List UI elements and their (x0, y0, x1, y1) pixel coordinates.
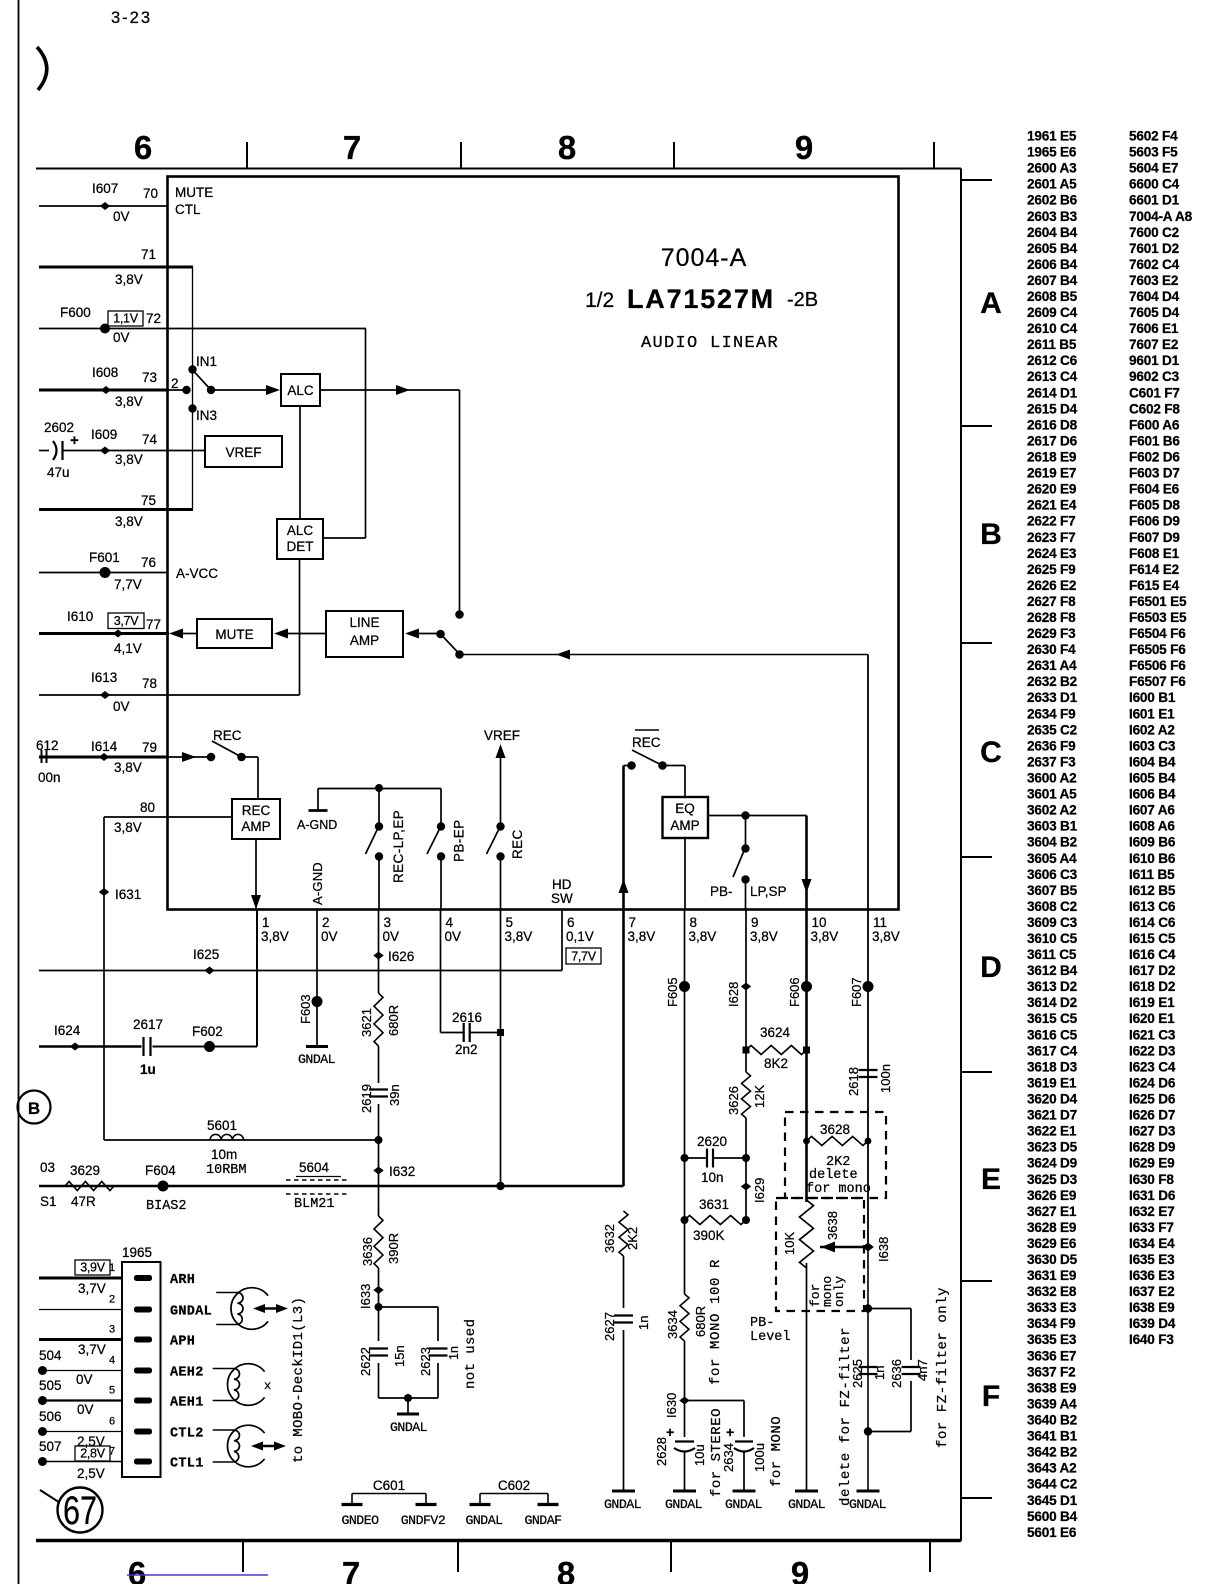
svg-text:ARH: ARH (170, 1273, 195, 1288)
svg-text:3612 B4: 3612 B4 (1027, 963, 1078, 978)
svg-text:I619 E1: I619 E1 (1129, 995, 1175, 1010)
svg-text:x: x (264, 1379, 271, 1393)
svg-text:I625 D6: I625 D6 (1129, 1092, 1176, 1107)
svg-text:2600 A3: 2600 A3 (1027, 161, 1077, 176)
svg-text:I630: I630 (664, 1393, 679, 1418)
svg-text:74: 74 (142, 432, 158, 447)
svg-text:I603 C3: I603 C3 (1129, 738, 1176, 753)
svg-text:39n: 39n (387, 1084, 402, 1106)
svg-text:3622 E1: 3622 E1 (1027, 1124, 1077, 1139)
svg-text:6600 C4: 6600 C4 (1129, 177, 1180, 192)
svg-text:3641 B1: 3641 B1 (1027, 1429, 1078, 1444)
svg-text:3,8V: 3,8V (750, 929, 778, 944)
svg-text:2616 D8: 2616 D8 (1027, 417, 1078, 432)
svg-text:1: 1 (262, 915, 270, 930)
svg-text:C: C (980, 736, 1002, 769)
svg-text:2620 E9: 2620 E9 (1027, 482, 1077, 497)
svg-text:F6507 F6: F6507 F6 (1129, 674, 1186, 689)
svg-text:F607 D9: F607 D9 (1129, 530, 1180, 545)
svg-text:7606 E1: 7606 E1 (1129, 321, 1179, 336)
svg-text:2626 E2: 2626 E2 (1027, 578, 1077, 593)
svg-text:I623 C4: I623 C4 (1129, 1059, 1176, 1074)
svg-text:3626 E9: 3626 E9 (1027, 1188, 1077, 1203)
svg-text:3642 B2: 3642 B2 (1027, 1445, 1078, 1460)
svg-text:3621: 3621 (359, 1008, 374, 1037)
svg-text:100n: 100n (878, 1064, 893, 1093)
svg-text:1u: 1u (140, 1062, 156, 1077)
svg-text:3639 A4: 3639 A4 (1027, 1397, 1077, 1412)
svg-text:I626 D7: I626 D7 (1129, 1108, 1175, 1123)
svg-text:F606 D9: F606 D9 (1129, 514, 1180, 529)
svg-text:3,8V: 3,8V (115, 514, 143, 529)
svg-text:I624: I624 (54, 1023, 81, 1038)
svg-text:2603 B3: 2603 B3 (1027, 209, 1078, 224)
svg-text:I632: I632 (389, 1164, 415, 1179)
svg-text:3632 E8: 3632 E8 (1027, 1284, 1077, 1299)
svg-text:I624 D6: I624 D6 (1129, 1076, 1176, 1091)
svg-text:for MONO 100 R: for MONO 100 R (708, 1259, 724, 1385)
svg-text:0V: 0V (77, 1402, 94, 1417)
svg-text:GNDAL: GNDAL (298, 1052, 336, 1067)
svg-text:100u: 100u (752, 1443, 767, 1472)
svg-text:2633 D1: 2633 D1 (1027, 690, 1078, 705)
svg-text:73: 73 (142, 370, 157, 385)
svg-text:GNDFV2: GNDFV2 (401, 1513, 445, 1528)
svg-text:I613 C6: I613 C6 (1129, 899, 1176, 914)
svg-text:F603: F603 (298, 994, 313, 1024)
svg-text:3617 C4: 3617 C4 (1027, 1043, 1078, 1058)
svg-text:Level: Level (750, 1330, 791, 1345)
svg-text:I628: I628 (726, 982, 741, 1007)
svg-text:IN1: IN1 (196, 354, 217, 369)
svg-text:2630 F4: 2630 F4 (1027, 642, 1076, 657)
svg-text:C601 F7: C601 F7 (1129, 385, 1180, 400)
svg-text:6: 6 (109, 1416, 115, 1428)
svg-text:F607: F607 (849, 977, 864, 1007)
svg-text:I621 C3: I621 C3 (1129, 1027, 1176, 1042)
svg-text:6: 6 (128, 1555, 146, 1584)
svg-text:I607 A6: I607 A6 (1129, 803, 1175, 818)
svg-text:I620 E1: I620 E1 (1129, 1011, 1175, 1026)
svg-text:AMP: AMP (350, 633, 379, 648)
svg-text:2K2: 2K2 (625, 1227, 640, 1250)
svg-text:3638 E9: 3638 E9 (1027, 1380, 1077, 1395)
svg-text:F606: F606 (787, 977, 802, 1007)
svg-text:3601 A5: 3601 A5 (1027, 787, 1077, 802)
svg-text:0V: 0V (383, 929, 400, 944)
svg-text:3613 D2: 3613 D2 (1027, 979, 1078, 994)
svg-text:5601 E6: 5601 E6 (1027, 1525, 1077, 1540)
svg-text:GNDAL: GNDAL (390, 1420, 428, 1435)
svg-text:A-GND: A-GND (310, 862, 325, 905)
svg-text:I618 D2: I618 D2 (1129, 979, 1176, 994)
svg-text:F6506 F6: F6506 F6 (1129, 658, 1186, 673)
svg-text:C601: C601 (373, 1478, 405, 1493)
svg-text:3638: 3638 (825, 1211, 840, 1240)
svg-text:for mono: for mono (806, 1182, 871, 1197)
svg-text:9601 D1: 9601 D1 (1129, 353, 1180, 368)
svg-text:2617 D6: 2617 D6 (1027, 433, 1078, 448)
svg-text:I632 E7: I632 E7 (1129, 1204, 1174, 1219)
svg-text:LA71527M: LA71527M (627, 284, 775, 314)
svg-text:03: 03 (40, 1160, 55, 1175)
svg-text:3643 A2: 3643 A2 (1027, 1461, 1077, 1476)
svg-text:3,8V: 3,8V (505, 929, 533, 944)
svg-text:9602 C3: 9602 C3 (1129, 369, 1180, 384)
svg-text:I614 C6: I614 C6 (1129, 915, 1176, 930)
svg-text:3620 D4: 3620 D4 (1027, 1092, 1078, 1107)
svg-text:BLM21: BLM21 (294, 1197, 335, 1212)
svg-text:8: 8 (690, 915, 698, 930)
svg-text:3,8V: 3,8V (115, 452, 143, 467)
svg-text:for FZ-filter only: for FZ-filter only (935, 1287, 951, 1448)
svg-text:79: 79 (142, 740, 157, 755)
svg-text:47R: 47R (71, 1194, 96, 1209)
svg-text:PB-: PB- (710, 884, 733, 899)
svg-text:5: 5 (109, 1385, 115, 1397)
svg-text:I607: I607 (92, 181, 118, 196)
svg-text:75: 75 (141, 493, 156, 508)
svg-text:2625: 2625 (850, 1359, 865, 1388)
svg-text:2632 B2: 2632 B2 (1027, 674, 1078, 689)
svg-text:REC: REC (213, 728, 242, 743)
svg-text:F: F (982, 1380, 1000, 1413)
svg-text:I631: I631 (115, 887, 141, 902)
svg-text:REC: REC (510, 829, 525, 859)
svg-text:VREF: VREF (484, 728, 520, 743)
svg-text:3603 B1: 3603 B1 (1027, 819, 1078, 834)
svg-text:3624 D9: 3624 D9 (1027, 1156, 1078, 1171)
svg-text:505: 505 (39, 1378, 62, 1393)
svg-text:DET: DET (287, 539, 314, 554)
svg-text:D: D (980, 951, 1002, 984)
svg-text:77: 77 (146, 617, 161, 632)
svg-text:506: 506 (39, 1409, 62, 1424)
svg-text:3: 3 (384, 915, 392, 930)
svg-text:AUDIO LINEAR: AUDIO LINEAR (641, 334, 779, 353)
svg-text:0V: 0V (113, 209, 130, 224)
svg-text:IN3: IN3 (196, 408, 217, 423)
svg-text:I609: I609 (91, 427, 117, 442)
svg-text:2602 B6: 2602 B6 (1027, 193, 1078, 208)
svg-text:70: 70 (143, 186, 158, 201)
svg-text:I605 B4: I605 B4 (1129, 771, 1176, 786)
svg-text:MUTE: MUTE (175, 185, 213, 200)
svg-text:for MONO: for MONO (769, 1416, 785, 1487)
svg-text:47u: 47u (47, 465, 70, 480)
svg-text:I638: I638 (876, 1237, 891, 1262)
svg-text:4: 4 (446, 915, 454, 930)
svg-text:3,8V: 3,8V (811, 929, 839, 944)
svg-text:3607 B5: 3607 B5 (1027, 883, 1078, 898)
svg-text:7,7V: 7,7V (114, 577, 142, 592)
svg-text:F6505 F6: F6505 F6 (1129, 642, 1186, 657)
svg-text:GNDAL: GNDAL (725, 1497, 763, 1512)
svg-text:3628 E9: 3628 E9 (1027, 1220, 1077, 1235)
svg-text:only: only (832, 1276, 847, 1307)
svg-text:REC: REC (242, 803, 271, 818)
svg-text:F600: F600 (60, 305, 91, 320)
svg-text:7604 D4: 7604 D4 (1129, 289, 1180, 304)
svg-text:GNDEO: GNDEO (341, 1513, 379, 1528)
svg-text:REC-LP,EP: REC-LP,EP (391, 810, 406, 883)
svg-text:7605 D4: 7605 D4 (1129, 305, 1180, 320)
svg-text:2627 F8: 2627 F8 (1027, 594, 1076, 609)
svg-text:2619 E7: 2619 E7 (1027, 466, 1076, 481)
svg-text:2625 F9: 2625 F9 (1027, 562, 1076, 577)
svg-text:3606 C3: 3606 C3 (1027, 867, 1078, 882)
svg-text:F602 D6: F602 D6 (1129, 450, 1180, 465)
svg-text:8K2: 8K2 (764, 1056, 788, 1071)
svg-text:2622 F7: 2622 F7 (1027, 514, 1075, 529)
svg-text:I600 B1: I600 B1 (1129, 690, 1176, 705)
svg-text:1n: 1n (447, 1346, 461, 1360)
svg-text:I633: I633 (358, 1284, 373, 1309)
svg-text:507: 507 (39, 1439, 62, 1454)
svg-text:2: 2 (322, 915, 330, 930)
svg-text:15n: 15n (392, 1345, 407, 1367)
svg-text:F605 D8: F605 D8 (1129, 498, 1180, 513)
svg-text:CTL2: CTL2 (170, 1427, 204, 1442)
svg-text:10n: 10n (701, 1170, 724, 1185)
svg-text:2: 2 (171, 376, 179, 391)
svg-text:4: 4 (109, 1355, 115, 1367)
svg-text:1965 E6: 1965 E6 (1027, 145, 1077, 160)
svg-text:B: B (980, 518, 1002, 551)
svg-text:680R: 680R (386, 1005, 401, 1036)
svg-text:PB-EP: PB-EP (452, 819, 467, 862)
svg-text:2605 B4: 2605 B4 (1027, 241, 1078, 256)
svg-text:EQ: EQ (675, 801, 695, 816)
svg-text:6601 D1: 6601 D1 (1129, 193, 1180, 208)
svg-text:00n: 00n (38, 770, 61, 785)
svg-text:2621 E4: 2621 E4 (1027, 498, 1077, 513)
svg-text:F603 D7: F603 D7 (1129, 466, 1180, 481)
svg-text:2618 E9: 2618 E9 (1027, 450, 1077, 465)
svg-text:I631 D6: I631 D6 (1129, 1188, 1176, 1203)
svg-text:I636 E3: I636 E3 (1129, 1268, 1175, 1283)
svg-text:I627 D3: I627 D3 (1129, 1124, 1176, 1139)
svg-text:2628: 2628 (654, 1437, 669, 1466)
svg-text:I625: I625 (193, 947, 219, 962)
svg-text:71: 71 (141, 247, 156, 262)
svg-text:3,7V: 3,7V (78, 1342, 106, 1357)
svg-text:3,8V: 3,8V (628, 929, 656, 944)
svg-text:7607 E2: 7607 E2 (1129, 337, 1179, 352)
svg-text:2604 B4: 2604 B4 (1027, 225, 1078, 240)
svg-text:3604 B2: 3604 B2 (1027, 835, 1078, 850)
svg-text:F608 E1: F608 E1 (1129, 546, 1180, 561)
svg-text:I610: I610 (67, 609, 93, 624)
svg-text:680R: 680R (693, 1306, 708, 1337)
svg-text:2623 F7: 2623 F7 (1027, 530, 1075, 545)
svg-text:10m: 10m (211, 1147, 237, 1162)
svg-text:F602: F602 (192, 1024, 223, 1039)
svg-text:3602 A2: 3602 A2 (1027, 803, 1077, 818)
svg-text:I616 C4: I616 C4 (1129, 947, 1176, 962)
svg-text:76: 76 (141, 555, 156, 570)
svg-text:2634 F9: 2634 F9 (1027, 706, 1076, 721)
svg-text:F6504 F6: F6504 F6 (1129, 626, 1186, 641)
svg-text:2635 C2: 2635 C2 (1027, 722, 1078, 737)
svg-text:7600 C2: 7600 C2 (1129, 225, 1180, 240)
svg-text:0V: 0V (113, 699, 130, 714)
svg-text:AEH1: AEH1 (170, 1396, 204, 1411)
svg-text:8: 8 (557, 1555, 575, 1584)
svg-text:AMP: AMP (670, 818, 699, 833)
svg-text:GNDAL: GNDAL (604, 1497, 642, 1512)
svg-text:390R: 390R (386, 1233, 401, 1264)
svg-text:5602 F4: 5602 F4 (1129, 129, 1178, 144)
svg-text:3610 C5: 3610 C5 (1027, 931, 1078, 946)
svg-text:I610 B6: I610 B6 (1129, 851, 1176, 866)
svg-text:2637 F3: 2637 F3 (1027, 755, 1076, 770)
svg-text:not used: not used (463, 1319, 479, 1389)
svg-text:2636: 2636 (889, 1359, 904, 1388)
svg-text:3618 D3: 3618 D3 (1027, 1059, 1078, 1074)
svg-text:I639 D4: I639 D4 (1129, 1316, 1176, 1331)
svg-text:F600 A6: F600 A6 (1129, 417, 1180, 432)
svg-text:3600 A2: 3600 A2 (1027, 771, 1077, 786)
svg-text:2629 F3: 2629 F3 (1027, 626, 1076, 641)
svg-text:3609 C3: 3609 C3 (1027, 915, 1078, 930)
svg-text:1/2: 1/2 (585, 289, 614, 312)
svg-text:7601 D2: 7601 D2 (1129, 241, 1180, 256)
svg-text:7: 7 (629, 915, 637, 930)
svg-text:3615 C5: 3615 C5 (1027, 1011, 1078, 1026)
svg-text:2613 C4: 2613 C4 (1027, 369, 1078, 384)
svg-text:3626: 3626 (726, 1086, 741, 1115)
svg-text:I629: I629 (752, 1178, 767, 1203)
svg-text:3611 C5: 3611 C5 (1027, 947, 1077, 962)
svg-text:3637 F2: 3637 F2 (1027, 1364, 1076, 1379)
svg-text:7: 7 (343, 129, 361, 166)
svg-text:6: 6 (134, 129, 152, 166)
svg-text:3,8V: 3,8V (115, 272, 143, 287)
svg-text:F615 E4: F615 E4 (1129, 578, 1180, 593)
svg-text:2615 D4: 2615 D4 (1027, 401, 1078, 416)
svg-text:LINE: LINE (349, 615, 379, 630)
svg-text:6: 6 (567, 915, 575, 930)
svg-text:390K: 390K (693, 1228, 725, 1243)
svg-text:LP,SP: LP,SP (750, 884, 787, 899)
svg-text:A-VCC: A-VCC (176, 566, 218, 581)
svg-text:2602: 2602 (44, 420, 74, 435)
svg-text:7: 7 (342, 1555, 360, 1584)
svg-text:GNDAL: GNDAL (170, 1305, 212, 1320)
svg-text:3629 E6: 3629 E6 (1027, 1236, 1077, 1251)
svg-text:2601 A5: 2601 A5 (1027, 177, 1077, 192)
svg-text:I601 E1: I601 E1 (1129, 706, 1175, 721)
svg-text:2631 A4: 2631 A4 (1027, 658, 1077, 673)
svg-text:F6503 E5: F6503 E5 (1129, 610, 1187, 625)
svg-text:I615 C5: I615 C5 (1129, 931, 1176, 946)
svg-text:3,8V: 3,8V (114, 820, 142, 835)
svg-text:I622 D3: I622 D3 (1129, 1043, 1176, 1058)
svg-text:12K: 12K (752, 1085, 767, 1108)
svg-text:80: 80 (140, 800, 155, 815)
svg-text:3644 C2: 3644 C2 (1027, 1477, 1078, 1492)
svg-text:F6501 E5: F6501 E5 (1129, 594, 1187, 609)
svg-text:7004-A: 7004-A (661, 244, 748, 272)
svg-text:1n: 1n (636, 1316, 651, 1330)
svg-text:7603 E2: 7603 E2 (1129, 273, 1179, 288)
svg-text:PB-: PB- (750, 1316, 774, 1331)
svg-text:I608: I608 (92, 365, 118, 380)
svg-text:3621 D7: 3621 D7 (1027, 1108, 1077, 1123)
svg-text:10: 10 (812, 915, 827, 930)
svg-text:4n7: 4n7 (915, 1359, 930, 1381)
svg-text:3-23: 3-23 (111, 9, 152, 27)
svg-text:2: 2 (109, 1294, 115, 1306)
svg-text:2610 C4: 2610 C4 (1027, 321, 1078, 336)
svg-text:3630 D5: 3630 D5 (1027, 1252, 1078, 1267)
svg-text:I633 F7: I633 F7 (1129, 1220, 1174, 1235)
svg-text:3623 D5: 3623 D5 (1027, 1140, 1078, 1155)
svg-text:I630 F8: I630 F8 (1129, 1172, 1174, 1187)
svg-text:GNDAL: GNDAL (665, 1497, 703, 1512)
svg-text:5603 F5: 5603 F5 (1129, 145, 1178, 160)
svg-text:2624 E3: 2624 E3 (1027, 546, 1077, 561)
svg-text:5601: 5601 (207, 1118, 237, 1133)
svg-text:2606 B4: 2606 B4 (1027, 257, 1078, 272)
svg-text:I629 E9: I629 E9 (1129, 1156, 1175, 1171)
svg-text:2628 F8: 2628 F8 (1027, 610, 1076, 625)
svg-text:2620: 2620 (697, 1134, 727, 1149)
svg-text:3636 E7: 3636 E7 (1027, 1348, 1076, 1363)
svg-text:2634: 2634 (721, 1443, 736, 1472)
svg-text:I617 D2: I617 D2 (1129, 963, 1176, 978)
svg-text:MUTE: MUTE (215, 627, 253, 642)
svg-text:2623: 2623 (418, 1347, 433, 1376)
svg-text:2612 C6: 2612 C6 (1027, 353, 1078, 368)
svg-text:3619 E1: 3619 E1 (1027, 1076, 1077, 1091)
svg-text:AMP: AMP (241, 819, 270, 834)
svg-text:3,8V: 3,8V (115, 394, 143, 409)
svg-text:3,7V: 3,7V (78, 1281, 106, 1296)
svg-text:3628: 3628 (820, 1122, 850, 1137)
svg-text:3,7V: 3,7V (114, 614, 139, 628)
svg-text:3634 F9: 3634 F9 (1027, 1316, 1076, 1331)
svg-text:A: A (980, 287, 1002, 320)
svg-text:2,5V: 2,5V (77, 1466, 105, 1481)
svg-text:I608 A6: I608 A6 (1129, 819, 1175, 834)
svg-text:I604 B4: I604 B4 (1129, 755, 1176, 770)
svg-text:3633 E3: 3633 E3 (1027, 1300, 1077, 1315)
svg-text:HD: HD (552, 877, 572, 892)
svg-text:I609 B6: I609 B6 (1129, 835, 1176, 850)
svg-text:I634 E4: I634 E4 (1129, 1236, 1175, 1251)
svg-text:3631 E9: 3631 E9 (1027, 1268, 1077, 1283)
svg-text:3645 D1: 3645 D1 (1027, 1493, 1078, 1508)
svg-text:E: E (981, 1163, 1001, 1196)
svg-text:67: 67 (63, 1489, 97, 1533)
svg-text:8: 8 (558, 129, 576, 166)
svg-text:delete for FZ-filter: delete for FZ-filter (838, 1327, 854, 1506)
svg-text:3632: 3632 (602, 1224, 617, 1253)
svg-text:F604: F604 (145, 1163, 176, 1178)
svg-text:3629: 3629 (70, 1163, 100, 1178)
svg-text:1n: 1n (872, 1366, 887, 1380)
svg-text:CTL1: CTL1 (170, 1457, 204, 1472)
svg-text:78: 78 (142, 676, 157, 691)
svg-text:AEH2: AEH2 (170, 1366, 204, 1381)
svg-text:F601 B6: F601 B6 (1129, 433, 1180, 448)
svg-text:0,1V: 0,1V (566, 929, 594, 944)
svg-text:I614: I614 (91, 739, 118, 754)
svg-text:2616: 2616 (452, 1010, 482, 1025)
svg-text:I602 A2: I602 A2 (1129, 722, 1175, 737)
